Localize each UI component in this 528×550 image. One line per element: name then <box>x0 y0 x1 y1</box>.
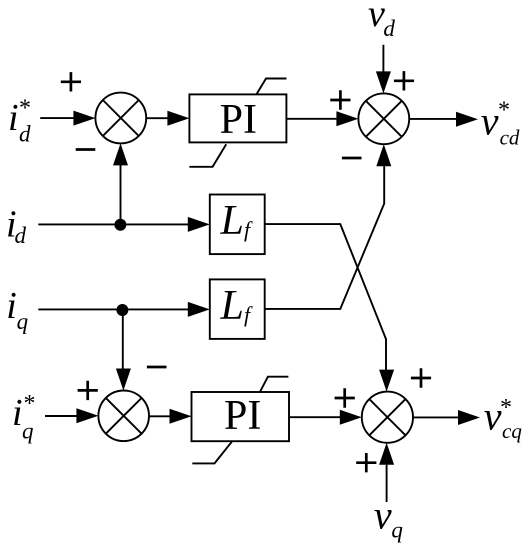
minus sign at S3 top input <box>147 366 167 369</box>
arrow into S2 left <box>336 111 358 126</box>
arrow into Lf1 <box>188 217 210 232</box>
arrow into S4 left <box>340 410 362 425</box>
wire PI1 to S2 <box>286 118 338 120</box>
wire S4 to output <box>413 416 460 418</box>
svg-text:*: * <box>498 98 510 124</box>
arrow into S3 top <box>116 369 131 391</box>
wire i_d horizontal <box>38 223 190 225</box>
svg-text:PI: PI <box>220 97 257 143</box>
svg-text:v: v <box>481 99 499 144</box>
svg-text:v: v <box>374 492 392 537</box>
svg-text:d: d <box>383 16 395 41</box>
svg-text:*: * <box>24 391 36 417</box>
wire S3 to PI2 <box>149 415 171 417</box>
arrow into PI2 <box>170 409 192 424</box>
wire Lf1 out with crossover down to S4 <box>265 224 386 370</box>
label v_cq* <box>484 394 523 443</box>
limiter mark PI2 top-right <box>260 377 288 392</box>
arrow into S1 left <box>73 111 95 126</box>
arrow into S4 top <box>379 370 394 392</box>
wire dot up to S1 <box>120 165 122 225</box>
summing junction S3 <box>98 391 149 442</box>
svg-text:q: q <box>17 309 29 334</box>
label v_cd* <box>481 98 520 150</box>
wire S2 to output <box>409 118 458 120</box>
svg-text:d: d <box>19 122 31 147</box>
label v_q <box>374 492 403 542</box>
svg-text:*: * <box>19 96 31 122</box>
Lf block (top) <box>210 195 265 255</box>
svg-text:cq: cq <box>502 419 522 443</box>
label v_d <box>368 0 395 41</box>
plus sign at S2 top input <box>394 71 414 90</box>
minus sign at S2 lower input <box>342 157 362 160</box>
svg-text:d: d <box>15 223 27 248</box>
arrow v_d into S2 top <box>376 71 391 93</box>
plus sign at S4 top input <box>411 368 431 387</box>
node dot on i_q wire <box>116 304 128 316</box>
arrow into S3 left <box>76 408 98 423</box>
summing junction S1 <box>95 93 146 144</box>
plus sign at S3 input <box>78 381 98 400</box>
summing junction S2 <box>358 93 409 144</box>
svg-text:q: q <box>391 517 403 542</box>
arrow into Lf2 <box>188 302 210 317</box>
wire i_q horizontal <box>38 308 190 310</box>
arrow into S2 bottom <box>376 144 391 166</box>
limiter mark PI1 top-right <box>257 79 287 95</box>
summing junction S4 <box>362 392 413 443</box>
arrow into PI1 <box>167 111 189 126</box>
label i_q* <box>12 391 36 444</box>
arrow output v_cq* <box>458 410 480 425</box>
wire i_q* input <box>45 415 79 417</box>
plus sign at S4 left input <box>335 388 355 407</box>
plus sign at S2 left input <box>330 90 350 109</box>
wire dot down to S3 <box>122 309 124 369</box>
svg-text:i: i <box>8 97 19 139</box>
svg-text:L: L <box>220 198 244 244</box>
svg-text:PI: PI <box>224 393 261 439</box>
plus sign at S4 bottom input <box>356 453 376 472</box>
svg-text:i: i <box>6 285 17 327</box>
svg-text:L: L <box>220 283 244 329</box>
limiter mark PI1 bottom-left <box>189 144 226 167</box>
label i_q <box>6 285 28 334</box>
label i_d* <box>8 96 31 147</box>
svg-text:cd: cd <box>500 125 520 149</box>
svg-text:*: * <box>500 395 512 421</box>
arrow v_q into S4 bottom <box>379 443 394 465</box>
wire Lf2 out with crossover up to S2 <box>265 166 385 309</box>
wire v_q up <box>386 465 388 502</box>
label i_d <box>6 204 27 249</box>
limiter mark PI2 bottom-left <box>192 441 232 463</box>
PI block U1 (d-axis) <box>189 94 286 143</box>
plus sign at S1 input <box>61 72 81 91</box>
node dot on i_d wire <box>114 219 126 231</box>
wire PI2 to S4 <box>289 416 341 418</box>
PI block U2 (q-axis) <box>192 392 290 441</box>
wire i_d* input <box>40 117 76 119</box>
arrow output v_cd* <box>456 112 478 127</box>
wire v_d down <box>382 45 384 74</box>
minus sign at S1 lower input <box>76 148 96 151</box>
wire S1 to PI1 <box>146 117 169 119</box>
Lf block (bottom) <box>210 279 265 339</box>
arrow into S1 bottom <box>113 143 128 165</box>
svg-text:q: q <box>22 419 34 444</box>
svg-text:i: i <box>12 392 23 434</box>
